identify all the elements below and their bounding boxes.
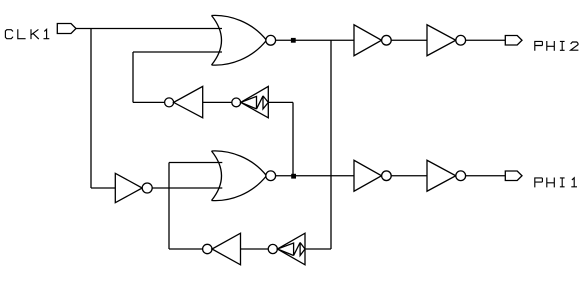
label PHI1 bbox=[535, 178, 577, 188]
wire U1 to U2 bbox=[391, 39, 427, 41]
wire U4 input to delay D1 bbox=[203, 101, 232, 103]
inverter U7 (left pointing) bbox=[203, 233, 241, 265]
delay element D1 (left pointing) bbox=[232, 86, 268, 117]
wire U7 input to delay D2 bbox=[241, 248, 269, 250]
label PHI2 bbox=[535, 41, 579, 51]
wire U5 to U6 bbox=[391, 175, 427, 177]
junction node PHI2A bbox=[291, 38, 296, 43]
NOR gate G1 (top) bbox=[212, 15, 276, 65]
wire delay D1 input stub bbox=[268, 101, 293, 103]
wire vertical x169 feedback bbox=[168, 163, 170, 250]
wire CLK1 branch down to inverter U3 bbox=[90, 29, 92, 189]
wire vertical x133 bbox=[132, 52, 134, 102]
wire feedback row2 left run bbox=[169, 248, 203, 250]
wire delay D2 input stub bbox=[305, 248, 331, 250]
junction node PHI1A bbox=[291, 174, 296, 179]
wire U3 output to NOR G2 input B bbox=[152, 187, 222, 189]
inverter U5 bbox=[354, 160, 391, 191]
input pin CLK1 bbox=[57, 24, 76, 34]
wire CLK1 to NOR1 input A bbox=[76, 28, 222, 30]
wire node PHI2A down to delay row 2 bbox=[330, 40, 332, 249]
inverter U2 bbox=[427, 25, 466, 56]
label CLK1 bbox=[5, 29, 49, 39]
wire inverter U4 output run bbox=[133, 101, 165, 103]
inverter U3 bbox=[115, 173, 152, 202]
wire G2 output to inverter U5 bbox=[276, 175, 354, 177]
wire from node PHI1A up to D1 bbox=[292, 102, 294, 175]
output pin PHI1 bbox=[505, 171, 522, 181]
wire feedback to NOR G2 input A bbox=[169, 162, 222, 164]
output pin PHI2 bbox=[505, 36, 522, 46]
wire feedback left to NOR G1 input B bbox=[133, 51, 222, 53]
wire CLK branch to inverter U3 input bbox=[91, 187, 115, 189]
wire U6 to pin PHI1 bbox=[466, 175, 506, 177]
NOR gate G2 (bottom) bbox=[212, 151, 276, 201]
wire G1 output to inverter U1 bbox=[276, 39, 354, 41]
delay element D2 (left pointing) bbox=[268, 233, 305, 265]
wire U2 to pin PHI2 bbox=[466, 39, 506, 41]
inverter U1 bbox=[354, 25, 391, 56]
inverter U4 (left pointing) bbox=[165, 86, 203, 117]
inverter U6 bbox=[427, 160, 466, 191]
